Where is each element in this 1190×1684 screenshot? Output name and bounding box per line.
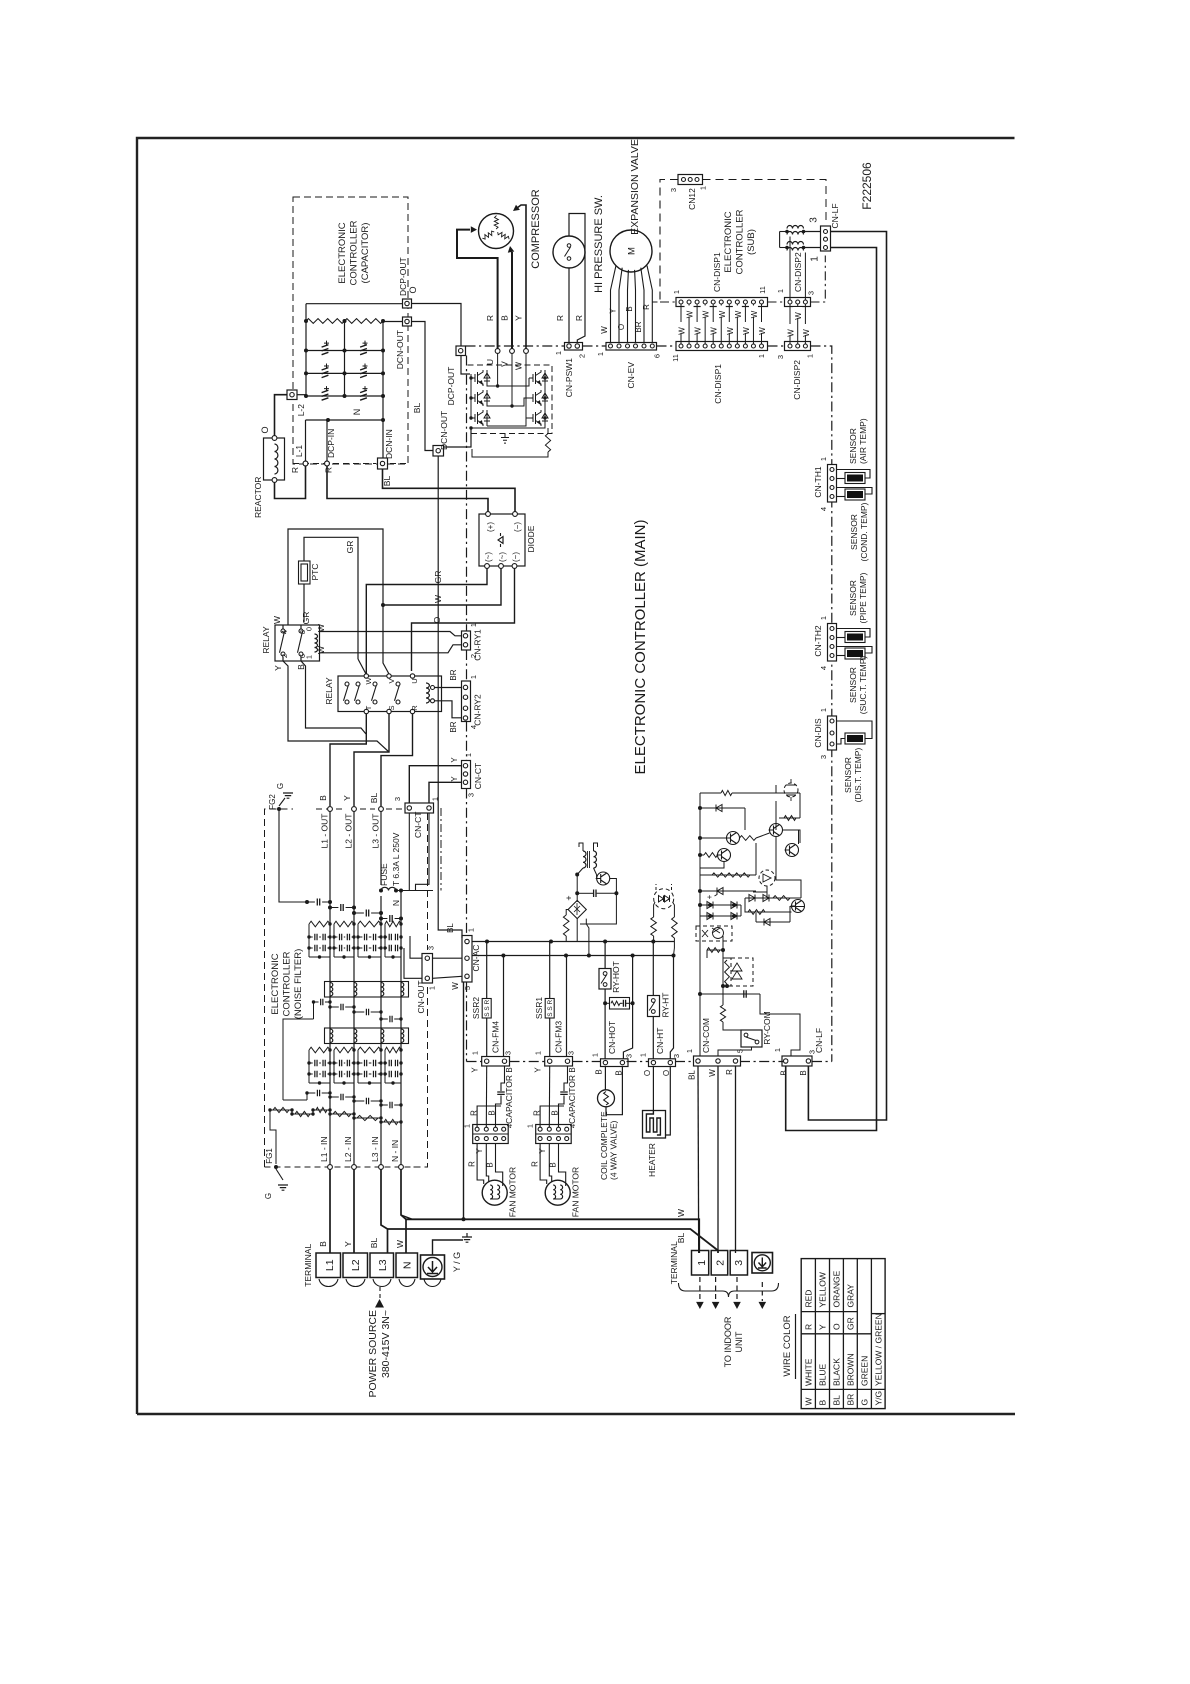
- sensor (suct temp) thermistor: [837, 647, 873, 654]
- svg-text:ORANGE: ORANGE: [832, 1270, 842, 1307]
- svg-text:1: 1: [819, 457, 828, 461]
- relay1 coil: [315, 634, 318, 652]
- svg-text:V: V: [387, 678, 396, 683]
- svg-text:5: 5: [736, 1049, 745, 1053]
- smps transformer: [583, 851, 586, 868]
- svg-text:B: B: [549, 1162, 558, 1167]
- connector CN-DISP1 (main side): [676, 342, 768, 351]
- motor lead wires: [540, 1144, 547, 1185]
- svg-text:4: 4: [280, 630, 289, 634]
- sensor (cond temp) thermistor: [837, 488, 873, 495]
- svg-text:W: W: [794, 312, 803, 320]
- dash-dot border bottom through connectors: [510, 1061, 545, 1063]
- motor 4pin connector: [536, 1125, 572, 1144]
- svg-text:RY-COM: RY-COM: [762, 1011, 772, 1045]
- fan capacitor: [497, 1092, 505, 1094]
- svg-text:WHITE: WHITE: [804, 1358, 814, 1386]
- L2-OUT node: [352, 807, 357, 812]
- fan capacitor: [560, 1092, 568, 1094]
- svg-text:B: B: [318, 795, 328, 801]
- middle capacitor row: [313, 1002, 315, 1019]
- resistor R-cap-bleed 1: [306, 319, 345, 324]
- svg-text:BR: BR: [846, 1394, 856, 1406]
- svg-text:L2 - IN: L2 - IN: [343, 1136, 353, 1162]
- sensor (dis temp) thermistor: [837, 721, 873, 739]
- zener diode row: [700, 874, 756, 876]
- capacitor board edge dashed line: [293, 463, 376, 465]
- wire Y to motor connector: [485, 1066, 487, 1129]
- L1-IN node: [328, 1165, 333, 1170]
- svg-text:U: U: [410, 678, 419, 683]
- svg-text:Y: Y: [342, 795, 352, 801]
- relay RY-HOT: [604, 942, 606, 969]
- svg-text:3: 3: [733, 1260, 745, 1266]
- resistor to mosfet right: [779, 817, 800, 819]
- connector CN-FM3: [545, 1057, 573, 1067]
- svg-text:Y / G: Y / G: [452, 1252, 462, 1272]
- wire reactor to L-1: [275, 466, 306, 499]
- svg-text:ELECTRONIC CONTROLLER (MAIN): ELECTRONIC CONTROLLER (MAIN): [632, 519, 649, 774]
- L1-OUT node: [328, 807, 333, 812]
- svg-text:L1 - OUT: L1 - OUT: [320, 814, 330, 849]
- svg-text:PTC: PTC: [310, 564, 320, 581]
- svg-text:POWER SOURCE: POWER SOURCE: [367, 1310, 379, 1398]
- node FG1 with ground: [274, 1165, 278, 1169]
- CT sense wires down to fuse line: [408, 813, 410, 891]
- relay2 coil: [426, 683, 429, 703]
- svg-text:S: S: [387, 705, 396, 710]
- choke coil pair (line filter): [787, 226, 804, 229]
- wire Y to motor connector: [548, 1066, 550, 1129]
- svg-text:BR: BR: [449, 669, 458, 680]
- wire B via capacitor: [501, 1066, 505, 1091]
- svg-text:(COND. TEMP): (COND. TEMP): [859, 502, 869, 561]
- connector DCP-OUT (main board in): [456, 346, 466, 356]
- main vertical lines L1 L2 L3 N in filter: [329, 811, 331, 1164]
- smps capacitor: [577, 892, 593, 894]
- svg-text:1: 1: [469, 623, 478, 627]
- svg-text:REACTOR: REACTOR: [253, 477, 263, 518]
- relay2 T S R output wires to L-OUT nodes: [330, 714, 366, 806]
- svg-text:1: 1: [591, 1053, 600, 1057]
- L2-IN node: [352, 1165, 357, 1170]
- wire B via capacitor: [564, 1066, 568, 1091]
- svg-text:W: W: [316, 624, 326, 632]
- svg-text:Y: Y: [450, 776, 459, 782]
- electronic controller MAIN dash-dot border: [466, 345, 565, 347]
- svg-text:W: W: [395, 1240, 405, 1248]
- svg-text:R: R: [642, 304, 651, 310]
- svg-text:W: W: [694, 327, 703, 335]
- svg-text:380-415V 3N~: 380-415V 3N~: [380, 1310, 392, 1378]
- svg-text:L2 - OUT: L2 - OUT: [344, 814, 354, 849]
- svg-text:RY-HT: RY-HT: [661, 992, 671, 1017]
- svg-text:BR: BR: [634, 321, 643, 332]
- wires CN-COM down to indoor terminals: [697, 1066, 700, 1253]
- svg-text:3: 3: [809, 217, 820, 223]
- RC snubber block: [610, 998, 630, 1010]
- svg-text:S S R: S S R: [547, 1000, 554, 1017]
- connector CN-DISP2 (sub side): [785, 298, 811, 307]
- com resistor: [720, 1005, 725, 1022]
- svg-text:FUSE: FUSE: [379, 863, 389, 886]
- svg-text:1: 1: [819, 708, 828, 712]
- long W wire to indoor terminal 1: [406, 1219, 699, 1253]
- svg-text:N: N: [391, 900, 401, 906]
- svg-text:B: B: [780, 1070, 789, 1075]
- dash CN12 to CN-LF: [703, 180, 827, 225]
- svg-text:B: B: [505, 1067, 514, 1072]
- triac leads with resistors: [654, 902, 655, 917]
- sensor (pipe temp) thermistor: [837, 629, 871, 638]
- svg-text:L3: L3: [377, 1259, 389, 1271]
- svg-text:R: R: [555, 315, 565, 321]
- connector CN-FM4: [482, 1057, 510, 1067]
- R wire from motor connector: [540, 1106, 564, 1129]
- diode to com: [756, 921, 790, 923]
- triac with dashed circle: [654, 889, 674, 909]
- svg-text:W: W: [702, 310, 711, 318]
- svg-text:W: W: [787, 329, 796, 337]
- filter RC cell x=309: [309, 921, 330, 927]
- svg-text:DCN-OUT: DCN-OUT: [439, 411, 449, 450]
- svg-text:YELLOW / GREEN: YELLOW / GREEN: [873, 1313, 883, 1386]
- node DCP-IN: [325, 461, 330, 466]
- sensor (air temp) thermistor: [837, 470, 871, 479]
- svg-text:R: R: [531, 1161, 540, 1167]
- diode AC input wires GR W O: [366, 568, 487, 674]
- svg-text:W: W: [708, 1069, 717, 1077]
- svg-text:R: R: [725, 1069, 734, 1075]
- svg-text:FG2: FG2: [268, 794, 277, 810]
- right sub-branch diodes and transistor: [753, 886, 767, 892]
- fan motor circle: [545, 1180, 570, 1205]
- dashed optocoupler led: [759, 870, 775, 886]
- svg-text:CN-LF: CN-LF: [814, 1028, 824, 1053]
- svg-text:SENSOR: SENSOR: [848, 428, 858, 464]
- diode bridge block: [479, 514, 525, 566]
- svg-text:1: 1: [305, 655, 314, 659]
- diode pair rows: [700, 904, 741, 906]
- motor 4pin connector: [473, 1125, 509, 1144]
- wire bus2 down to CN-HT pin3: [670, 956, 673, 1059]
- relay RY-COM: [741, 1030, 762, 1047]
- compressor Y wire with arrow: [515, 205, 526, 349]
- svg-text:0: 0: [305, 627, 314, 631]
- svg-text:SENSOR: SENSOR: [843, 757, 853, 793]
- indoor brace: [679, 1283, 779, 1297]
- svg-text:COIL COMPLETE: COIL COMPLETE: [599, 1111, 609, 1180]
- svg-text:1: 1: [696, 1260, 708, 1266]
- svg-text:L3 - OUT: L3 - OUT: [371, 814, 381, 849]
- capacitor bank bus wires: [305, 304, 307, 396]
- svg-text:BL: BL: [446, 923, 455, 933]
- inverter internal bus wires: [470, 374, 472, 418]
- svg-text:N - IN: N - IN: [390, 1140, 400, 1162]
- svg-text:1: 1: [526, 1124, 535, 1128]
- smps left rail: [576, 875, 578, 903]
- svg-text:1: 1: [464, 753, 473, 757]
- svg-text:Y/G: Y/G: [873, 1391, 883, 1406]
- svg-text:HEATER: HEATER: [647, 1143, 657, 1177]
- svg-text:ELECTRONIC: ELECTRONIC: [337, 222, 348, 283]
- svg-text:11: 11: [671, 354, 680, 362]
- SUB board dash-dot edge: [660, 301, 676, 303]
- svg-text:CN-HOT: CN-HOT: [607, 1021, 617, 1054]
- svg-text:EXPANSION VALVE: EXPANSION VALVE: [629, 139, 641, 235]
- inductor block 1 (common mode choke): [325, 982, 409, 998]
- svg-text:W: W: [272, 616, 282, 624]
- svg-text:G: G: [860, 1399, 870, 1406]
- electrolytic capacitor pair row y=373.4: [306, 372, 383, 374]
- svg-text:HI PRESSURE SW.: HI PRESSURE SW.: [593, 195, 605, 293]
- svg-text:B: B: [568, 1067, 577, 1072]
- svg-text:O: O: [662, 1070, 671, 1076]
- svg-text:L-2: L-2: [296, 404, 306, 417]
- svg-text:CN-DISP2: CN-DISP2: [793, 252, 803, 292]
- connector CN12: [678, 175, 703, 185]
- relay1 pin4 wire to relay2 V: [282, 625, 284, 629]
- svg-text:YELLOW: YELLOW: [818, 1272, 828, 1307]
- electronic controller (noise filter) dashed box: [265, 809, 294, 1167]
- svg-text:1: 1: [471, 1051, 480, 1055]
- svg-text:1: 1: [554, 351, 563, 355]
- svg-text:N: N: [352, 409, 362, 416]
- cluster h-wire with diode: [700, 807, 745, 809]
- svg-text:O: O: [432, 616, 442, 623]
- svg-text:CN-LF: CN-LF: [830, 203, 840, 228]
- svg-text:R: R: [324, 467, 334, 473]
- svg-text:CN-DISP1: CN-DISP1: [712, 252, 722, 292]
- connector CN-RY1: [462, 631, 471, 650]
- svg-text:R: R: [470, 1110, 479, 1116]
- svg-text:CAPACITOR: CAPACITOR: [567, 1075, 577, 1124]
- svg-text:TERMINAL: TERMINAL: [303, 1244, 313, 1287]
- inverter DC bus from DCP-OUT: [461, 356, 470, 375]
- svg-text:R: R: [533, 1110, 542, 1116]
- W wire from CN-AC down to indoor line: [463, 982, 465, 1219]
- svg-text:ELECTRONIC: ELECTRONIC: [723, 211, 734, 272]
- svg-text:CN-OUT: CN-OUT: [416, 980, 426, 1013]
- svg-text:1: 1: [463, 1124, 472, 1128]
- svg-text:SENSOR: SENSOR: [848, 580, 858, 616]
- svg-text:CN-RY2: CN-RY2: [473, 694, 483, 726]
- wire from cap to CN-LF pin1 col: [760, 994, 800, 1056]
- svg-text:CONTROLLER: CONTROLLER: [349, 220, 360, 285]
- svg-text:RELAY: RELAY: [261, 626, 271, 654]
- connector DCN-IN: [378, 458, 388, 469]
- svg-text:3: 3: [467, 793, 476, 797]
- relay1 pin2 wire down to S line: [283, 661, 389, 752]
- connector CN-TH1: [828, 465, 837, 503]
- varistor row: [270, 1109, 292, 1111]
- solid state relay SSR1: [549, 942, 551, 999]
- AC bus line 2: [472, 955, 674, 957]
- svg-text:CONTROLLER: CONTROLLER: [735, 209, 746, 274]
- long BL wire to indoor terminal 2: [388, 1229, 719, 1253]
- svg-text:2: 2: [578, 354, 587, 358]
- wire DCN-IN to diode(-): [383, 469, 516, 512]
- inverter output to DCN-OUT: [444, 428, 472, 447]
- CN-OUT wires into filter: [410, 936, 422, 958]
- svg-text:(NOISE FILTER): (NOISE FILTER): [293, 949, 304, 1020]
- svg-text:Y: Y: [450, 757, 459, 763]
- solid state relay SSR2: [486, 942, 488, 999]
- filter RC cell x=385: [385, 1047, 401, 1053]
- svg-text:(SUB): (SUB): [746, 229, 757, 255]
- page border frame: [137, 138, 1015, 1414]
- compressor motor circle: [479, 214, 514, 249]
- svg-text:W: W: [750, 310, 759, 318]
- svg-text:(+): (+): [486, 522, 495, 532]
- svg-text:B: B: [500, 315, 510, 321]
- svg-text:1: 1: [534, 1051, 543, 1055]
- svg-text:3: 3: [669, 188, 678, 192]
- svg-text:W: W: [600, 326, 609, 334]
- svg-text:R: R: [410, 705, 419, 711]
- fan motor circle: [482, 1180, 507, 1205]
- long loop wires from CN-LF down right side: [808, 232, 886, 1121]
- svg-text:Y: Y: [343, 1241, 353, 1247]
- svg-text:+: +: [564, 895, 574, 900]
- filter RC cell x=309: [309, 1047, 330, 1053]
- svg-text:CN12: CN12: [687, 188, 697, 210]
- relay RELAY2 (main power relay): [338, 676, 442, 712]
- lower com network: [707, 949, 723, 951]
- svg-text:2: 2: [715, 1260, 727, 1266]
- svg-text:GREEN: GREEN: [860, 1356, 870, 1386]
- compressor R wire loop with arrow: [457, 230, 498, 349]
- shield dash around EV R wire: [652, 180, 678, 303]
- connector CN-LF (bottom): [782, 1056, 812, 1066]
- svg-text:3: 3: [427, 946, 436, 950]
- connector CN-COM: [694, 1056, 741, 1066]
- svg-text:W: W: [514, 362, 524, 370]
- compressor B wire with arrow: [511, 252, 513, 349]
- filter bottom dashed edge with IN nodes: [265, 1166, 428, 1168]
- svg-text:Y: Y: [514, 315, 524, 321]
- svg-text:CN-PSW1: CN-PSW1: [564, 358, 574, 397]
- connector CN-DIS: [828, 716, 837, 750]
- B wire to CN-FM4 pin3: [503, 956, 505, 1057]
- indoor dashed arrows: [699, 1277, 701, 1301]
- svg-text:R: R: [290, 467, 300, 473]
- svg-text:W: W: [758, 327, 767, 335]
- terminal block earth circle: [421, 1255, 445, 1279]
- svg-text:GR: GR: [301, 612, 311, 625]
- connector CN-DISP1 (sub side): [676, 298, 768, 307]
- connector CN-OUT (noise filter output): [422, 954, 433, 984]
- svg-text:Y: Y: [273, 665, 283, 671]
- svg-text:Y: Y: [609, 308, 618, 314]
- wires CN-OUT to CN-AC: [433, 957, 463, 959]
- connector CN-HT: [649, 1059, 676, 1067]
- connector DCP-OUT (capacitor board): [403, 299, 412, 308]
- svg-text:R: R: [468, 1161, 477, 1167]
- connector CN-AC: [462, 936, 472, 983]
- svg-text:(SUC.T. TEMP): (SUC.T. TEMP): [858, 656, 868, 715]
- svg-text:N: N: [402, 1262, 414, 1270]
- svg-text:SENSOR: SENSOR: [848, 667, 858, 703]
- svg-text:O: O: [643, 1070, 652, 1076]
- connector DCN-OUT (main board in): [433, 446, 444, 457]
- svg-text:4: 4: [505, 1124, 514, 1128]
- svg-text:BL: BL: [369, 793, 379, 804]
- GR wire diagonal into relay2 W: [358, 659, 366, 674]
- filter RC cell x=334: [334, 1047, 354, 1053]
- svg-text:U: U: [485, 359, 495, 365]
- electronic controller (capacitor) dashed box: [293, 197, 408, 464]
- control circuit cluster frame wires: [699, 793, 701, 950]
- svg-text:3: 3: [819, 755, 828, 759]
- indoor terminal block 1 2 3: [692, 1251, 709, 1276]
- svg-text:UNIT: UNIT: [734, 1331, 744, 1352]
- svg-text:GR: GR: [846, 1317, 856, 1330]
- svg-text:CAPACITOR: CAPACITOR: [504, 1075, 514, 1124]
- svg-text:1: 1: [810, 256, 821, 262]
- svg-text:B: B: [488, 1110, 497, 1115]
- svg-text:CN-FM4: CN-FM4: [491, 1021, 501, 1053]
- svg-text:4: 4: [568, 1124, 577, 1128]
- svg-text:1: 1: [467, 928, 476, 932]
- svg-text:1: 1: [672, 290, 681, 294]
- bottom capacitor row: [283, 1099, 307, 1101]
- transistor Q group: [727, 832, 740, 845]
- filter RC cell x=385: [385, 921, 401, 927]
- svg-text:2: 2: [280, 654, 289, 658]
- svg-text:(DIS.T. TEMP): (DIS.T. TEMP): [853, 748, 863, 803]
- svg-text:DIODE: DIODE: [526, 525, 536, 552]
- smps resistor to bus: [563, 915, 569, 936]
- connector CN-EV: [606, 343, 657, 351]
- svg-text:R: R: [485, 315, 495, 321]
- pressure switch wires R R: [568, 268, 570, 343]
- svg-text:1: 1: [685, 1049, 694, 1053]
- expansion valve motor: [610, 230, 652, 272]
- svg-text:W: W: [718, 310, 727, 318]
- svg-text:1: 1: [819, 616, 828, 620]
- 11 W harness wires between CN-DISP1 connectors: [680, 304, 682, 344]
- relay RELAY1 (PTC relay): [275, 625, 320, 661]
- svg-text:CN-CT: CN-CT: [413, 812, 423, 838]
- svg-text:SSR1: SSR1: [534, 997, 544, 1019]
- svg-text:CN-TH2: CN-TH2: [813, 625, 823, 656]
- svg-text:B: B: [625, 306, 634, 311]
- svg-text:CN-DISP1: CN-DISP1: [713, 364, 723, 404]
- svg-text:T: T: [364, 705, 373, 710]
- terminal L-2: [287, 390, 297, 400]
- svg-text:BLUE: BLUE: [818, 1363, 828, 1386]
- svg-text:CN-TH1: CN-TH1: [813, 466, 823, 497]
- svg-text:5: 5: [463, 986, 472, 990]
- connector DCN-OUT (capacitor board): [403, 317, 412, 326]
- wire bus2 down to CN-HOT pin3: [623, 956, 632, 1059]
- svg-text:B: B: [799, 1070, 808, 1075]
- svg-text:F222506: F222506: [860, 162, 874, 210]
- svg-text:RELAY: RELAY: [324, 677, 334, 705]
- svg-text:DCP-OUT: DCP-OUT: [398, 257, 408, 296]
- svg-text:(~): (~): [498, 552, 507, 562]
- svg-text:Y: Y: [534, 1067, 543, 1073]
- svg-text:TERMINAL: TERMINAL: [669, 1241, 679, 1284]
- svg-text:(−): (−): [513, 522, 522, 532]
- svg-text:SENSOR: SENSOR: [849, 514, 859, 550]
- svg-text:FAN MOTOR: FAN MOTOR: [508, 1167, 518, 1217]
- relay2 coil wires to CN-RY2: [435, 687, 462, 689]
- svg-text:+: +: [705, 894, 714, 899]
- svg-text:BL: BL: [369, 1238, 379, 1249]
- svg-text:L3 - IN: L3 - IN: [370, 1136, 380, 1162]
